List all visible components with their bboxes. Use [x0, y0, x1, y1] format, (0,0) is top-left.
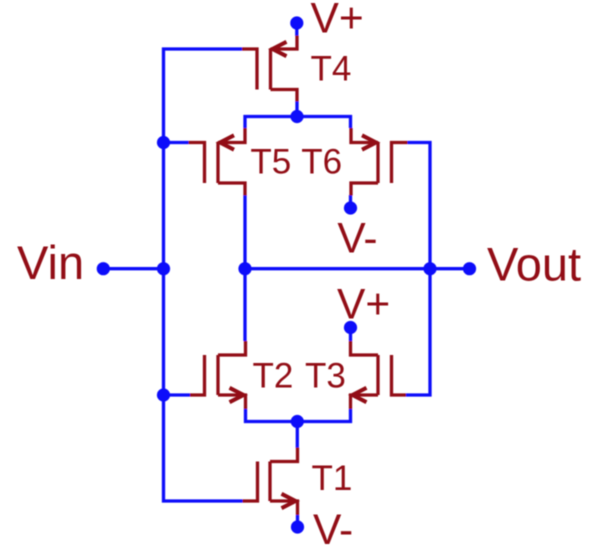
wire: T6 source to middle V- — [349, 195, 352, 208]
wire: left rail to T5 gate — [164, 141, 189, 144]
wire: Vin lead — [103, 267, 163, 270]
transistor T1 channel — [268, 462, 271, 502]
transistor T3 arrow-side lead — [351, 395, 379, 409]
transistor T5 arrow-side lead — [218, 128, 245, 143]
transistor T2 gate lead — [190, 355, 205, 395]
wire: middle V+ to T3 drain — [349, 328, 352, 342]
svg-text:V-: V- — [313, 507, 353, 549]
transistor T6 other lead — [351, 183, 378, 196]
transistor T5 other lead — [218, 183, 245, 196]
transistor T5 gate lead — [189, 143, 205, 184]
svg-text:T5: T5 — [250, 143, 291, 182]
wire: right rail T6 gate to T3 gate — [406, 143, 430, 396]
junction: left rail / T2 gate — [157, 388, 170, 401]
junction: left rail / Vin — [157, 262, 170, 275]
transistor T3 other lead — [351, 341, 379, 355]
junction: center node — [238, 262, 251, 275]
terminal: top V+ — [290, 16, 303, 29]
wire: source rail down to T1 drain — [296, 422, 299, 449]
transistor T4 arrow — [273, 42, 287, 56]
junction: right rail / Vout — [423, 262, 436, 275]
transistor T2 arrow — [230, 388, 244, 402]
wire: T1 source to bottom V- — [296, 515, 299, 527]
transistor T4 other lead — [271, 90, 298, 102]
transistor T3 arrow — [353, 388, 367, 402]
svg-text:T6: T6 — [301, 143, 342, 182]
transistor T6 gate lead — [392, 143, 408, 184]
wire: left rail to T2 gate — [164, 393, 191, 396]
terminal: middle V+ — [344, 321, 357, 334]
svg-text:T2: T2 — [253, 357, 294, 396]
terminal: Vin — [97, 262, 110, 275]
transistor T1 gate lead — [243, 462, 258, 502]
svg-text:T4: T4 — [311, 50, 352, 89]
junction: T1 drain on source rail — [291, 415, 304, 428]
transistor T6 channel — [376, 143, 379, 184]
transistor T2 other lead — [218, 341, 246, 355]
transistor T4 arrow-side lead — [271, 36, 298, 50]
svg-text:T1: T1 — [312, 459, 353, 498]
svg-text:Vout: Vout — [487, 238, 581, 291]
transistor T6 arrow-side lead — [351, 128, 378, 143]
svg-text:V-: V- — [337, 215, 377, 262]
wire: left gate rail from T4 gate down to T1 gate — [164, 49, 243, 501]
transistor T4 channel — [269, 49, 272, 90]
transistor T3 channel — [376, 355, 379, 395]
transistor T6 arrow — [362, 135, 376, 149]
transistor T5 channel — [216, 143, 219, 184]
terminal: middle V- — [344, 201, 357, 214]
junction: T4 drain on drain rail — [290, 110, 303, 123]
transistor T1 arrow-side lead — [270, 501, 298, 515]
svg-text:V+: V+ — [311, 0, 364, 43]
wire: T5 source down to center node and T2 drain — [243, 195, 246, 341]
svg-text:Vin: Vin — [17, 236, 84, 289]
wire: top V+ to T4 source — [295, 23, 298, 36]
wire: T5/T6 drain rail — [245, 117, 351, 129]
transistor T2 arrow-side lead — [218, 395, 246, 409]
junction: left rail / T5 gate — [157, 136, 170, 149]
transistor T4 gate lead — [242, 49, 257, 90]
transistor T2 channel — [216, 355, 219, 395]
wire: center node to Vout — [245, 267, 470, 270]
wire: T2/T3 source rail — [246, 409, 351, 422]
wire: T4 drain to T5/T6 drain rail — [295, 101, 298, 117]
transistor T1 other lead — [270, 448, 298, 462]
terminal: bottom V- — [291, 520, 304, 533]
transistor T3 gate lead — [392, 355, 407, 395]
svg-text:V+: V+ — [337, 281, 390, 328]
transistor T5 arrow — [220, 135, 234, 149]
terminal: Vout — [463, 262, 476, 275]
svg-text:T3: T3 — [305, 357, 346, 396]
transistor T1 arrow — [282, 494, 296, 508]
